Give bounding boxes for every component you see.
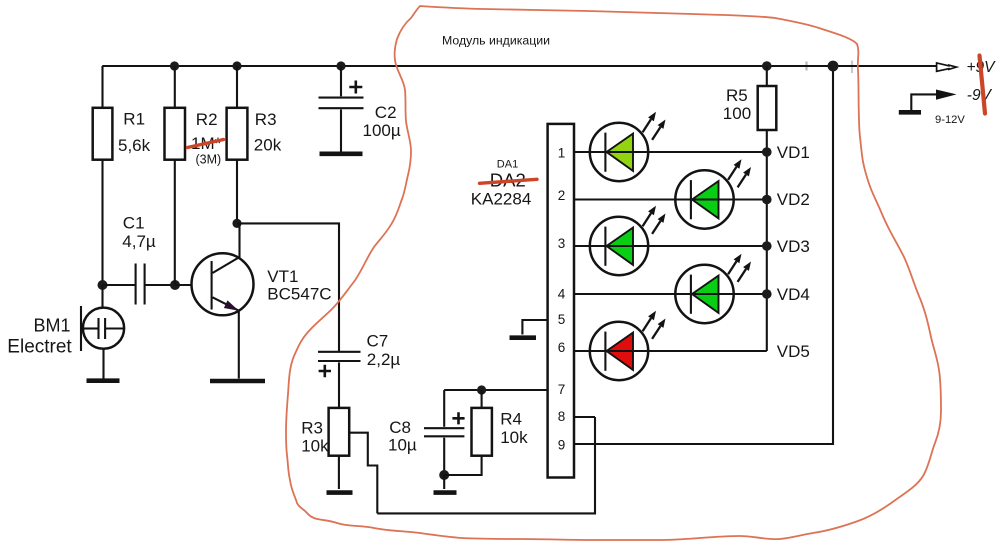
svg-text:VD4: VD4 xyxy=(777,285,810,304)
wire node A to C1 xyxy=(103,284,136,286)
svg-text:R5: R5 xyxy=(726,86,748,105)
label C8 value xyxy=(388,418,417,454)
svg-text:(3M): (3M) xyxy=(196,152,222,166)
wire C1 to node B xyxy=(145,284,175,286)
svg-text:C1: C1 xyxy=(123,213,145,232)
svg-text:C7: C7 xyxy=(367,332,389,351)
ground (C8) xyxy=(434,490,457,495)
wire R2 bottom lead xyxy=(174,160,176,285)
annotation red strike over +9V/-9V xyxy=(980,56,986,114)
LED VD4 xyxy=(675,254,751,323)
svg-text:KA2284: KA2284 xyxy=(471,189,532,208)
svg-text:2,2µ: 2,2µ xyxy=(367,350,401,369)
LED VD2 xyxy=(675,159,751,228)
wire R3 bottom lead to collector node xyxy=(236,160,238,224)
svg-text:9-12V: 9-12V xyxy=(935,114,965,126)
svg-text:20k: 20k xyxy=(254,135,282,154)
-9V output arrow xyxy=(936,90,957,100)
wire R5 top lead xyxy=(766,66,768,86)
svg-text:VD5: VD5 xyxy=(777,342,810,361)
label BM1 Electret xyxy=(7,316,72,358)
wire bottom bus to pin8 column xyxy=(377,417,595,513)
capacitor C8 xyxy=(424,390,465,475)
wire R2 top lead xyxy=(174,66,176,108)
svg-text:R1: R1 xyxy=(123,109,145,128)
annotation red strike over DA2 xyxy=(480,179,538,183)
LED VD3 xyxy=(590,206,666,275)
svg-text:3: 3 xyxy=(558,236,566,251)
wire pin8 xyxy=(574,416,595,418)
wire pin7 net xyxy=(444,389,547,391)
ground (C2) xyxy=(320,152,363,157)
wire mic bottom lead xyxy=(102,349,104,379)
svg-text:9: 9 xyxy=(558,438,566,453)
ground (-9V supply) xyxy=(899,110,921,115)
microphone BM1 xyxy=(81,306,124,351)
wire node C to C7 column xyxy=(237,223,339,351)
svg-text:100: 100 xyxy=(723,104,751,123)
svg-text:10µ: 10µ xyxy=(388,435,417,454)
svg-text:10k: 10k xyxy=(500,428,528,447)
wire pin3 row xyxy=(574,245,767,247)
ground (VT1 emitter) xyxy=(210,379,265,384)
wire pin6 row xyxy=(574,350,767,352)
wire R3b tap to bottom bus xyxy=(349,433,377,514)
op-amp U1 (IC DA2 KA2284 body) xyxy=(548,124,574,478)
svg-text:VD2: VD2 xyxy=(777,190,810,209)
node dot R2 top on rail xyxy=(170,61,179,70)
svg-text:4: 4 xyxy=(558,287,566,302)
transistor VT1 xyxy=(192,223,254,378)
ground (pin5) xyxy=(510,335,537,340)
node A (mic/C1 junction) xyxy=(98,280,108,290)
svg-text:10k: 10k xyxy=(301,436,329,455)
svg-text:VT1: VT1 xyxy=(267,267,298,286)
svg-text:VD3: VD3 xyxy=(777,237,810,256)
LED VD1 xyxy=(590,112,666,181)
node dot R3 top on rail xyxy=(232,61,241,70)
node dot C2 top on rail xyxy=(336,61,345,70)
svg-text:5: 5 xyxy=(558,312,566,327)
ground (R3b) xyxy=(327,490,353,495)
wire R1 top lead xyxy=(101,66,103,108)
resistor R1 xyxy=(93,108,113,160)
wire R3b bottom lead xyxy=(338,456,340,489)
svg-text:Electret: Electret xyxy=(7,337,72,358)
wire pin1 row xyxy=(574,151,767,153)
svg-text:5,6k: 5,6k xyxy=(118,136,151,155)
resistor R3 (20k) xyxy=(227,108,248,160)
label R2 value 1M* (3M) xyxy=(191,110,222,166)
annotation red strike over 1M* xyxy=(188,140,224,148)
label C7 value xyxy=(367,332,401,370)
svg-text:6: 6 xyxy=(558,340,566,355)
svg-text:R4: R4 xyxy=(500,410,522,429)
svg-text:C2: C2 xyxy=(375,103,397,122)
svg-text:2: 2 xyxy=(558,188,566,203)
label R3 20k xyxy=(254,110,282,154)
resistor R5 xyxy=(758,86,777,130)
label C2 value xyxy=(363,103,401,140)
node dot +9V drop on rail xyxy=(828,61,839,72)
node D (C8/R4 bottom junction) xyxy=(439,470,449,480)
svg-text:BC547C: BC547C xyxy=(267,285,331,304)
svg-text:R3: R3 xyxy=(301,419,323,438)
node B (R2/base junction) xyxy=(170,280,180,290)
wire node D to R4 bottom xyxy=(444,456,481,475)
svg-text:100µ: 100µ xyxy=(363,121,401,140)
wire pin9 to +9V drop xyxy=(574,66,833,444)
resistor R4 xyxy=(472,408,492,456)
wire R1 bottom lead xyxy=(101,160,103,285)
svg-text:7: 7 xyxy=(558,382,566,397)
label R5 100 xyxy=(723,86,751,123)
resistor R2 xyxy=(165,108,186,160)
wire node D ground lead xyxy=(443,475,445,489)
resistor R3b (10k trimmer) xyxy=(329,408,350,456)
capacitor C1 xyxy=(136,264,145,305)
svg-text:BM1: BM1 xyxy=(34,316,71,336)
svg-text:Модуль индикации: Модуль индикации xyxy=(442,34,550,48)
svg-text:1: 1 xyxy=(558,146,566,161)
svg-text:R3: R3 xyxy=(255,110,277,129)
wire power rail +9V xyxy=(805,62,807,71)
wire -9V lead xyxy=(911,94,937,110)
wire mic top lead xyxy=(101,285,103,308)
wire node B to VT1 base xyxy=(175,284,212,286)
wire pin4 row xyxy=(574,293,767,295)
svg-text:R2: R2 xyxy=(196,110,218,129)
label R3b 10k xyxy=(301,419,329,456)
wire R3 top lead xyxy=(236,66,238,108)
LED VD5 xyxy=(590,311,666,380)
wire pin2 row xyxy=(574,198,767,200)
capacitor C2 xyxy=(319,66,364,152)
label R1 value xyxy=(118,109,151,155)
label VT1 BC547C xyxy=(267,267,331,304)
wire R4 top lead xyxy=(481,390,483,408)
node dots on LED bus xyxy=(762,147,772,299)
annotation module outline (hand-drawn red blob) xyxy=(286,6,941,540)
capacitor C7 xyxy=(318,352,361,408)
+9V output arrow xyxy=(937,63,957,71)
svg-text:8: 8 xyxy=(558,409,566,424)
wire pin5 to ground xyxy=(522,320,547,335)
svg-text:-9V: -9V xyxy=(967,87,993,104)
node C (collector/R3/C7 junction) xyxy=(232,219,241,228)
svg-text:VD1: VD1 xyxy=(777,143,810,162)
node dot R5 top on rail xyxy=(762,61,772,71)
label R4 10k xyxy=(500,410,528,448)
node E (R4 top junction) xyxy=(477,385,486,394)
label C1 value xyxy=(122,213,156,250)
svg-text:4,7µ: 4,7µ xyxy=(122,232,156,251)
ground (mic) xyxy=(87,378,120,383)
wire LED bus xyxy=(766,130,768,351)
